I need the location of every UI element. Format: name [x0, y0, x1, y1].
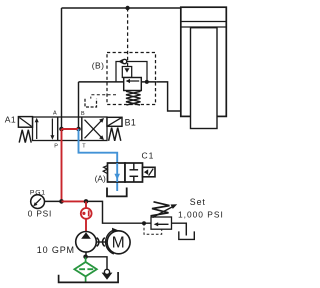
check valve in bypass — [118, 59, 126, 64]
electric motor — [107, 231, 130, 254]
label 10 GPM — [37, 245, 75, 255]
wire T tank line (blue) — [79, 129, 118, 191]
svg-text:B1: B1 — [125, 117, 137, 127]
shaft coupling — [96, 238, 107, 247]
valve B main element — [124, 78, 142, 91]
valve A body right envelope (blocked) — [125, 163, 143, 182]
directional valve left envelope arrows — [35, 118, 55, 140]
svg-text:(A): (A) — [95, 174, 106, 184]
valve B counterbalance enclosure (dashed) — [107, 53, 156, 105]
wire check-valve bypass loop — [116, 62, 147, 82]
wire valve B through line — [79, 81, 157, 83]
svg-text:C1: C1 — [142, 150, 155, 160]
pump outlet check valve (red) — [81, 201, 92, 231]
cylinder piston — [181, 22, 226, 28]
label port B — [81, 111, 85, 117]
label (B) — [92, 60, 105, 70]
node check loop junction — [145, 80, 149, 84]
valve B pilot cap — [122, 67, 131, 78]
wire port A riser (valve A1 work line) — [61, 8, 63, 129]
solenoid left of directional valve — [18, 117, 32, 128]
svg-text:P: P — [54, 144, 58, 150]
node center envelope T junction — [76, 127, 81, 132]
svg-text:0 PSI: 0 PSI — [28, 209, 52, 219]
cylinder barrel — [181, 7, 227, 116]
valve B spring — [126, 91, 141, 105]
label port T — [82, 144, 86, 150]
svg-text:A1: A1 — [5, 114, 16, 124]
wire rod-end line from valve B to cylinder — [157, 82, 181, 111]
wire pressurized path through center envelope (red) — [62, 128, 79, 130]
solenoid C1 — [143, 167, 156, 177]
svg-text:1,000 PSI: 1,000 PSI — [178, 209, 224, 219]
valve B drain tank — [85, 99, 97, 107]
relief valve — [142, 217, 172, 229]
label 0 PSI — [28, 209, 52, 219]
pressure gauge PG1 — [31, 195, 45, 209]
case drain to tank — [86, 257, 113, 280]
label port A — [53, 111, 57, 117]
svg-text:PG1: PG1 — [30, 189, 46, 196]
tank below valve A — [107, 188, 127, 197]
spring left of valve A — [103, 166, 107, 174]
relief valve spring with adjustment arrow — [151, 202, 178, 218]
valve B drain line (dashed) — [91, 95, 116, 99]
label A1 — [5, 114, 16, 124]
wire P pressure line (red) — [61, 129, 63, 201]
suction strainer (green diamond) — [74, 257, 96, 282]
tank at relief valve — [179, 231, 195, 239]
pump — [76, 232, 97, 253]
directional valve right envelope crossed arrows — [85, 118, 105, 140]
valve A body left envelope — [108, 163, 126, 182]
svg-text:(B): (B) — [92, 60, 105, 70]
svg-text:10 GPM: 10 GPM — [37, 245, 75, 255]
rotation arrow — [106, 228, 119, 254]
wire port B riser — [78, 82, 80, 129]
label PG1 — [30, 189, 46, 196]
svg-text:M: M — [112, 235, 125, 252]
wire port B inside center envelope — [78, 117, 80, 129]
label 1,000 PSI — [178, 209, 224, 219]
wire blue through valve A envelope — [114, 163, 120, 182]
wire port A inside center envelope — [61, 117, 63, 129]
solenoid right of directional valve — [107, 117, 122, 126]
node center envelope P junction — [59, 127, 64, 132]
node P line gauge junction — [59, 199, 64, 204]
svg-text:A: A — [53, 111, 57, 117]
wire P junction to check junction (red) — [62, 200, 87, 202]
wire gauge to P line — [45, 200, 62, 202]
label port P — [54, 144, 58, 150]
cylinder rod — [191, 28, 218, 129]
label Set — [190, 197, 206, 207]
spring left of directional valve — [19, 130, 31, 143]
relief valve pilot (dashed) — [144, 223, 162, 234]
label B1 — [125, 117, 137, 127]
directional valve body — [33, 117, 108, 141]
node pump inlet junction — [83, 252, 88, 259]
wire cap-end top rail — [62, 7, 182, 9]
wire relief outlet to tank — [172, 223, 187, 235]
node pilot tap junction on top rail — [125, 6, 129, 10]
svg-text:B: B — [81, 111, 85, 117]
svg-text:Set: Set — [190, 197, 206, 207]
reservoir tank (main) — [59, 272, 119, 282]
spring right of directional valve — [109, 128, 121, 141]
wire to relief valve — [86, 201, 151, 223]
label (A) — [95, 174, 106, 184]
node check valve junction — [84, 199, 89, 204]
label C1 — [142, 150, 155, 160]
pilot line (dashed) from top rail to valve B pilot — [127, 8, 129, 67]
